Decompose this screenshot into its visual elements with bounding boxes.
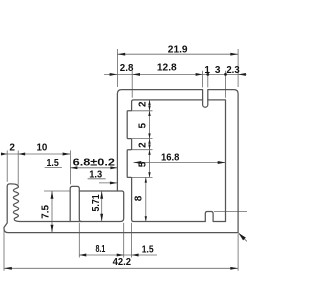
svg-text:8.1: 8.1: [95, 244, 105, 255]
svg-text:21.9: 21.9: [168, 45, 188, 56]
svg-text:1: 1: [204, 65, 210, 76]
svg-text:1.5: 1.5: [46, 158, 59, 169]
svg-text:10: 10: [36, 143, 47, 154]
svg-text:5: 5: [138, 161, 149, 167]
svg-text:2: 2: [138, 142, 149, 148]
svg-text:2.3: 2.3: [226, 65, 240, 76]
svg-text:7.5: 7.5: [40, 205, 51, 219]
svg-text:2.8: 2.8: [120, 63, 134, 74]
svg-text:8: 8: [134, 195, 145, 201]
svg-text:2: 2: [138, 101, 149, 107]
svg-text:42.2: 42.2: [113, 257, 132, 268]
svg-text:3: 3: [215, 65, 221, 76]
svg-text:1.5: 1.5: [142, 245, 154, 256]
svg-text:1.3: 1.3: [89, 169, 102, 180]
svg-text:12.8: 12.8: [157, 63, 177, 74]
svg-text:16.8: 16.8: [161, 153, 180, 164]
svg-text:2: 2: [9, 143, 15, 154]
svg-text:5.71: 5.71: [91, 194, 102, 212]
svg-text:6.8±0.2: 6.8±0.2: [73, 158, 116, 169]
svg-text:5: 5: [138, 122, 149, 128]
